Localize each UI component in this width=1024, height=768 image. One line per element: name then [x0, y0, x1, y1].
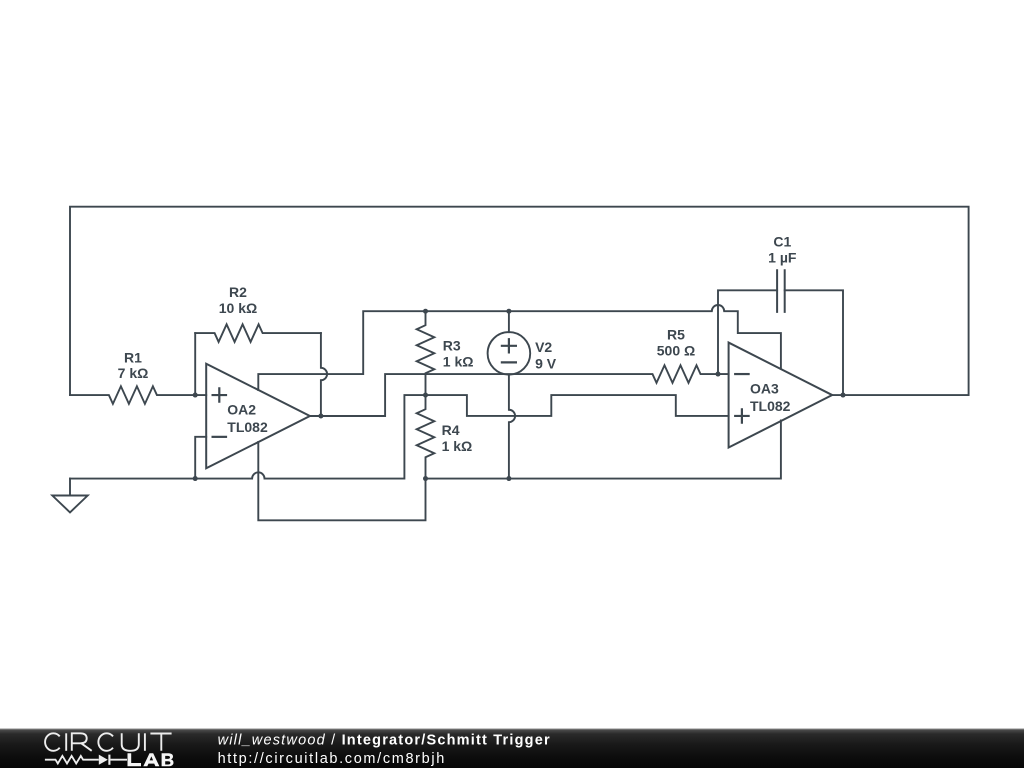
- op-amp OA3: [729, 343, 833, 448]
- node OA3 output: [841, 393, 846, 398]
- wire OA3 inverting input stub: [718, 373, 729, 375]
- voltage source V2: [488, 332, 531, 375]
- CircuitLab logo LAB: [128, 753, 174, 766]
- svg-text:R3: R3: [443, 338, 461, 354]
- svg-text:C1: C1: [773, 234, 791, 250]
- wire ground net with hop: [70, 395, 426, 479]
- node reference divider: [423, 393, 428, 398]
- svg-text:V2: V2: [535, 339, 552, 355]
- svg-text:1 µF: 1 µF: [768, 249, 797, 265]
- wire OA2 inverting input: [195, 437, 206, 479]
- footer banner: [0, 729, 1024, 768]
- svg-text:OA3: OA3: [750, 381, 779, 397]
- resistor R4: [417, 395, 435, 479]
- node R1/R2/OA2+: [193, 393, 198, 398]
- wire C1 right to OA3 output: [785, 290, 843, 395]
- svg-text:10 kΩ: 10 kΩ: [219, 300, 257, 316]
- wire V2 bottom stub with hop: [509, 375, 515, 479]
- CircuitLab logo wordmark CIRCUIT: [45, 733, 172, 751]
- ground: [69, 479, 71, 496]
- node V2 top: [506, 309, 511, 314]
- resistor R1: [70, 386, 206, 404]
- svg-text:9 V: 9 V: [535, 355, 557, 371]
- resistor R3: [417, 311, 435, 395]
- svg-text:R2: R2: [229, 284, 247, 300]
- wire reference node to OA3 non-inverting input: [426, 395, 729, 416]
- node R3 top: [423, 309, 428, 314]
- wire R2 left vertical: [194, 333, 196, 395]
- svg-text:500 Ω: 500 Ω: [657, 343, 695, 359]
- wire big feedback loop from OA3 output to R1: [70, 207, 969, 395]
- svg-text:OA2: OA2: [227, 402, 256, 418]
- CircuitLab logo resistor-diode: [45, 755, 127, 765]
- svg-text:TL082: TL082: [750, 398, 791, 414]
- svg-text:1 kΩ: 1 kΩ: [443, 354, 474, 370]
- svg-text:R4: R4: [442, 422, 460, 438]
- svg-text:http://circuitlab.com/cm8rbjh: http://circuitlab.com/cm8rbjh: [218, 751, 446, 767]
- wire V- net to OA3 V-: [426, 420, 781, 478]
- node OA2 output: [318, 414, 323, 419]
- node V2 bottom: [506, 476, 511, 481]
- op-amp OA2: [206, 364, 310, 469]
- wire V+ rail with hop to OA3 V+: [426, 305, 781, 369]
- resistor R2: [195, 324, 321, 342]
- node OA2 inverting/ground: [193, 476, 198, 481]
- capacitor C1: [777, 270, 785, 312]
- node R4 bottom: [423, 476, 428, 481]
- svg-text:will_westwood / Integrator/Sch: will_westwood / Integrator/Schmitt Trigg…: [218, 732, 551, 748]
- node R5/C1/OA3-: [716, 372, 721, 377]
- wire V2 top stub: [508, 311, 510, 332]
- svg-text:TL082: TL082: [227, 419, 268, 435]
- svg-text:R1: R1: [124, 349, 142, 365]
- svg-text:1 kΩ: 1 kΩ: [442, 438, 473, 454]
- wire R2 right vertical with hop: [321, 333, 327, 416]
- wire OA2 V- power route: [258, 442, 425, 520]
- svg-text:R5: R5: [667, 327, 685, 343]
- wire OA2 V+ power route: [258, 311, 425, 390]
- wire OA2 output to R5 to OA3 inverting input: [310, 365, 718, 416]
- wire C1 left: [718, 290, 777, 374]
- svg-text:7 kΩ: 7 kΩ: [118, 365, 149, 381]
